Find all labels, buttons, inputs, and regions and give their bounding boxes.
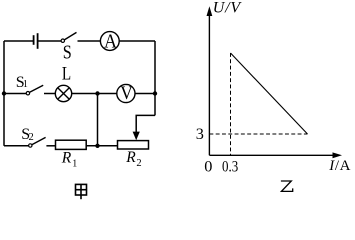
wire battery to switch S — [38, 40, 62, 42]
rheostat R2 — [118, 141, 149, 149]
resistor R1 — [56, 140, 87, 149]
svg-text:1: 1 — [23, 79, 28, 90]
svg-text:L: L — [62, 65, 71, 85]
node left junction — [2, 91, 6, 95]
wire top row left of battery — [4, 40, 33, 42]
x-axis I/A — [209, 154, 333, 156]
wire right vertical — [154, 41, 156, 115]
wire S2 to R1 — [46, 145, 55, 147]
battery — [34, 33, 38, 49]
svg-text:U/V: U/V — [213, 0, 243, 17]
ammeter A — [100, 32, 119, 51]
dashed vertical at 0.3 — [230, 53, 232, 155]
switch S2 — [4, 145, 29, 147]
wire lamp to mid junction — [72, 93, 117, 95]
wire middle vertical — [97, 94, 99, 146]
lamp L — [55, 85, 71, 101]
svg-text:R: R — [125, 149, 136, 166]
node bottom junction — [95, 144, 99, 148]
node right junction — [153, 91, 157, 95]
wire wiper from right vertical — [136, 115, 155, 133]
svg-text:0: 0 — [204, 156, 212, 175]
y-axis U/V — [208, 13, 210, 155]
svg-text:I/A: I/A — [328, 158, 351, 174]
wire voltmeter to right vertical — [135, 93, 155, 95]
wire left vertical — [3, 41, 5, 146]
node mid junction — [95, 91, 99, 95]
wire ammeter to top-right corner — [119, 40, 155, 42]
curve U-I line — [231, 53, 308, 134]
svg-text:3: 3 — [196, 124, 204, 143]
svg-text:0.3: 0.3 — [222, 156, 238, 175]
switch S — [61, 39, 64, 42]
wiper arrow — [133, 132, 140, 141]
wire R1 to R2 — [86, 145, 117, 147]
svg-text:R: R — [61, 149, 72, 166]
svg-text:A: A — [104, 32, 117, 53]
wire switch S to ammeter — [78, 40, 101, 42]
svg-text:2: 2 — [136, 158, 141, 169]
label jia (甲) — [76, 184, 87, 199]
svg-text:2: 2 — [29, 132, 34, 143]
svg-text:1: 1 — [72, 158, 77, 169]
switch S1 — [4, 93, 26, 95]
svg-text:V: V — [120, 83, 133, 104]
svg-text:S: S — [63, 42, 72, 63]
label yi (乙) — [281, 181, 293, 191]
dashed horizontal at 3 — [209, 133, 307, 135]
voltmeter V — [117, 84, 135, 102]
wire S1 to lamp — [44, 93, 55, 95]
